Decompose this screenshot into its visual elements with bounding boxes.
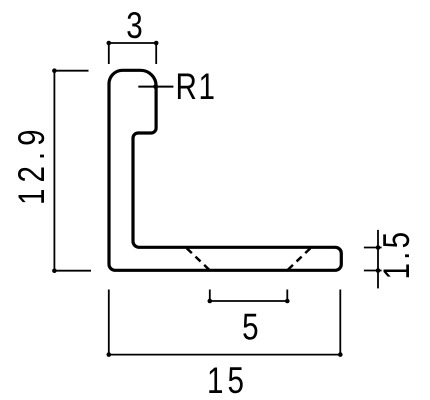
- svg-text:1.5: 1.5: [377, 229, 418, 280]
- svg-text:5: 5: [242, 307, 258, 348]
- svg-text:12.9: 12.9: [12, 123, 53, 205]
- svg-text:R1: R1: [176, 67, 217, 108]
- svg-text:3: 3: [126, 6, 142, 47]
- svg-text:15: 15: [207, 361, 248, 400]
